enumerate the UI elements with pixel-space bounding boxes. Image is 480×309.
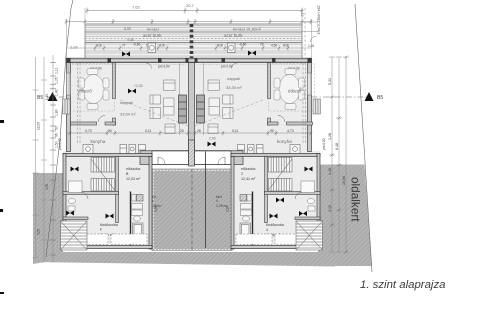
svg-text:+2,00: +2,00: [134, 84, 143, 88]
left wing bottom wall: [63, 246, 152, 249]
bath fixtures right: [241, 204, 252, 222]
svg-text:6,48: 6,48: [335, 143, 339, 150]
svg-text:4,50: 4,50: [271, 44, 277, 48]
left property boundary line: [46, 0, 73, 257]
rear wall of main block centre: [152, 150, 231, 152]
left wing left wall: [63, 153, 66, 249]
wc fixtures left: [68, 181, 82, 211]
vent duct dashed left: [77, 63, 79, 144]
wing top wall left: [63, 153, 152, 156]
kitchen counter right: [235, 145, 312, 155]
wall below dining left: [71, 122, 97, 125]
shaft hatched left: [137, 195, 144, 202]
party wall: [189, 63, 195, 165]
back-to-back wall units on party wall: [179, 95, 205, 123]
courtyard drain line: [205, 151, 207, 248]
svg-text:pm 0,00: pm 0,00: [322, 138, 326, 150]
dining room dashed outline left: [69, 64, 115, 112]
svg-text:B5: B5: [377, 95, 383, 101]
svg-text:0,11: 0,11: [145, 129, 151, 133]
svg-text:10,66: 10,66: [342, 176, 346, 185]
wc wall right: [265, 192, 321, 195]
svg-text:-0,60: -0,60: [133, 43, 140, 47]
sofa group right unit: [208, 80, 233, 134]
right wing right wall: [317, 153, 320, 249]
side garden (oldalkert) hatch: [318, 165, 372, 267]
svg-text:90: 90: [108, 129, 112, 133]
svg-text:5,31: 5,31: [328, 78, 332, 85]
svg-text:fürdőszoba: fürdőszoba: [100, 223, 118, 227]
radiator left wall: [63, 99, 71, 114]
svg-text:8,00: 8,00: [124, 27, 131, 31]
dining wall right unit: [268, 63, 271, 99]
left wing floor: [63, 151, 152, 249]
bath wall right: [252, 192, 254, 246]
left wing right wall (courtyard side): [149, 157, 152, 250]
svg-text:oldalkert: oldalkert: [349, 177, 363, 222]
előszoba label left: [126, 167, 141, 181]
door arcs rear walk: [158, 157, 165, 164]
svg-text:2,00: 2,00: [209, 137, 216, 141]
svg-text:pm 0,00: pm 0,00: [158, 65, 170, 69]
svg-text:1,02: 1,02: [70, 45, 79, 50]
svg-text:95: 95: [55, 133, 59, 137]
left wall window: [67, 73, 71, 95]
svg-text:2: 2: [241, 172, 243, 176]
shower box left: [133, 223, 144, 242]
pm 0,00 labels: [90, 65, 300, 71]
svg-text:9,48: 9,48: [127, 38, 134, 42]
wing top wall right: [231, 153, 320, 156]
svg-text:pm 0,00: pm 0,00: [221, 65, 233, 69]
top dimension line 1: [87, 8, 302, 14]
svg-text:3,95: 3,95: [226, 206, 230, 212]
kitchen counter left: [67, 145, 149, 155]
svg-text:1,50: 1,50: [55, 141, 59, 148]
shaft hatched right: [240, 195, 247, 202]
dining table right: [274, 69, 305, 110]
right wall window: [308, 73, 312, 95]
door arcs top wall: [146, 63, 152, 69]
exterior stair left: [61, 221, 88, 250]
svg-text:előszoba: előszoba: [126, 167, 140, 171]
sight dashed lines nappali: [120, 100, 188, 126]
svg-text:12,03 m²: 12,03 m²: [126, 177, 141, 181]
party wall shaft to courtyard: [189, 140, 195, 166]
svg-text:154 HRSZ: 154 HRSZ: [317, 5, 321, 23]
svg-text:acsr burk: acsr burk: [143, 33, 162, 38]
door arc dining right: [278, 115, 285, 122]
svg-text:1,40: 1,40: [55, 89, 59, 96]
door arc wc left: [82, 193, 89, 200]
svg-text:26: 26: [197, 129, 201, 133]
előszoba label right: [241, 167, 256, 181]
svg-text:acsr burk: acsr burk: [224, 33, 243, 38]
svg-text:terrasz 31,60m²: terrasz 31,60m²: [233, 27, 262, 32]
right top corner rotated survey text: [317, 5, 321, 34]
door arc wc right: [295, 193, 302, 200]
wc wall left: [63, 192, 119, 195]
svg-text:étkező: étkező: [79, 89, 93, 94]
fürdőszoba label right: [266, 223, 284, 237]
svg-text:1,52: 1,52: [300, 10, 304, 17]
registration marks at left edge: [0, 120, 4, 123]
svg-text:1. szint alaprajza: 1. szint alaprajza: [360, 279, 445, 291]
main block floor: [67, 58, 312, 152]
svg-text:1,02: 1,02: [308, 44, 314, 48]
section marker B5 right: [365, 92, 374, 101]
svg-text:1,11: 1,11: [55, 68, 59, 74]
svg-text:33,30 m²: 33,30 m²: [226, 85, 242, 90]
stairs right unit: [269, 158, 293, 192]
svg-text:20: 20: [180, 129, 184, 133]
svg-text:B5: B5: [37, 95, 43, 101]
dining room dashed outline right: [269, 64, 315, 112]
sofa group left unit: [150, 80, 175, 134]
svg-text:A16: A16: [159, 44, 165, 48]
vent duct dashed right: [302, 63, 304, 144]
door arc dining left: [98, 115, 105, 122]
right wing left wall (courtyard side): [231, 157, 234, 250]
svg-text:73: 73: [260, 43, 264, 47]
courtyard dashed border: [154, 171, 231, 250]
bath wall left: [130, 192, 132, 246]
svg-text:étkező: étkező: [288, 89, 302, 94]
left outer wall: [67, 63, 71, 152]
wall below dining right: [287, 122, 313, 125]
left vertical dimension chains: [33, 55, 54, 262]
dashed rooms bottom right wing: [236, 234, 272, 245]
svg-text:33,54 m²: 33,54 m²: [120, 112, 136, 117]
svg-text:20,7: 20,7: [186, 3, 195, 8]
wc fixtures right: [301, 181, 315, 211]
svg-text:A16: A16: [283, 44, 289, 48]
svg-text:77: 77: [122, 44, 126, 48]
svg-text:1,45: 1,45: [45, 94, 49, 100]
svg-text:1,80: 1,80: [55, 109, 59, 116]
svg-text:5,05: 5,05: [37, 229, 41, 235]
svg-text:12,41 m²: 12,41 m²: [241, 177, 256, 181]
svg-text:előszoba: előszoba: [241, 167, 255, 171]
right outer wall: [308, 63, 312, 152]
window code boxes on terrace: [148, 43, 235, 53]
level mark nappali left: [128, 84, 143, 94]
right vertical dimension chains: [329, 57, 349, 252]
small level marks in rooms: [66, 167, 313, 219]
svg-text:4,73: 4,73: [85, 129, 92, 133]
svg-text:50: 50: [55, 126, 59, 130]
svg-text:4,73: 4,73: [287, 129, 294, 133]
svg-text:pm 0,00: pm 0,00: [58, 138, 62, 150]
svg-text:7,62: 7,62: [132, 5, 141, 10]
svg-text:3,10: 3,10: [328, 205, 332, 212]
hall wall left: [116, 157, 119, 223]
top window wall: [67, 58, 312, 62]
radiator right wall: [313, 99, 321, 114]
hall wall right: [265, 157, 268, 223]
exterior stair right: [296, 221, 323, 250]
svg-text:0,11: 0,11: [232, 129, 238, 133]
terrace snow guard marks: [122, 51, 256, 57]
svg-text:1,28: 1,28: [328, 133, 332, 140]
svg-text:-0,60: -0,60: [239, 43, 246, 47]
dining wall left unit: [113, 63, 116, 99]
right wing bottom wall: [231, 246, 320, 249]
svg-text:A16: A16: [96, 44, 102, 48]
bottom retaining strip hatch: [33, 252, 335, 267]
dashed rooms bottom left wing: [80, 234, 108, 245]
svg-text:terrasz: terrasz: [147, 27, 159, 32]
right wing floor: [231, 151, 320, 249]
terrace deck: [67, 8, 312, 58]
bath fixtures left: [132, 204, 143, 222]
interior dimension chain mid: [67, 131, 312, 136]
section marker B5 left: [48, 92, 58, 101]
svg-text:90: 90: [270, 129, 274, 133]
kert label left: [150, 195, 162, 208]
level mark right near party wall: [208, 137, 216, 147]
svg-text:konyha: konyha: [91, 139, 106, 144]
svg-text:4: 4: [266, 228, 268, 232]
fürdőszoba label left: [100, 223, 118, 237]
svg-text:3,95: 3,95: [154, 206, 158, 212]
dining table left: [79, 69, 110, 110]
small dimension row under terrace: [66, 45, 311, 51]
svg-text:A16: A16: [217, 44, 223, 48]
kert label right: [216, 195, 228, 208]
svg-text:fürdőszoba: fürdőszoba: [266, 223, 284, 227]
section line B5-B5: [47, 96, 372, 98]
top right small dims: [302, 8, 318, 58]
svg-text:4,35: 4,35: [45, 184, 49, 190]
stairs left unit: [91, 158, 115, 192]
courtyard centre dashed line: [191, 169, 193, 252]
svg-text:1174/3: 1174/3: [317, 23, 321, 34]
wall unit edge lines: [179, 63, 181, 135]
dimension slash ticks: [65, 20, 313, 23]
left garden hatch: [33, 173, 63, 264]
courtyard hatch: [152, 169, 233, 252]
svg-text:4: 4: [216, 199, 218, 203]
shower box right: [240, 223, 251, 242]
svg-text:12,95: 12,95: [37, 122, 41, 130]
svg-text:1,05: 1,05: [55, 77, 59, 84]
svg-text:1,40: 1,40: [328, 168, 332, 175]
svg-text:konyha: konyha: [277, 139, 292, 144]
right property boundary line: [355, 4, 372, 272]
top dimension line 2: [66, 19, 311, 25]
svg-text:nappali: nappali: [227, 76, 240, 81]
